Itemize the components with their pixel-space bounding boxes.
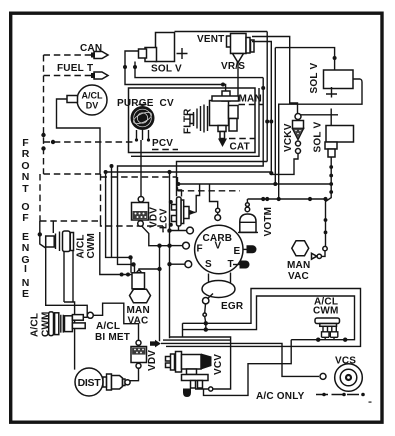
carburetor CARB bbox=[195, 225, 243, 273]
wire band a S to VCV bbox=[170, 337, 231, 389]
filter FLTR stack bbox=[190, 105, 208, 133]
wire v6 drop to CARB top bbox=[274, 48, 276, 184]
svg-text:T: T bbox=[22, 183, 29, 195]
svg-text:CWM: CWM bbox=[86, 233, 97, 259]
wire CWM1 feed from dashed box bbox=[52, 221, 54, 233]
svg-text:PCV: PCV bbox=[152, 138, 173, 149]
wire S-F column bbox=[169, 172, 171, 338]
svg-text:A/CL: A/CL bbox=[76, 234, 87, 258]
wire v5 drop bbox=[106, 171, 272, 173]
motor A/CL CWM 3 bbox=[313, 297, 347, 342]
wire MAN VAC feeds bbox=[106, 172, 131, 273]
wire MAN VAC left feed bbox=[100, 232, 132, 275]
wire dashed mid right bbox=[178, 177, 241, 191]
svg-text:S: S bbox=[205, 259, 212, 270]
wire VR/S down bbox=[237, 63, 239, 97]
wire FUEL dashed with arrow bbox=[44, 75, 94, 77]
label FRONT OF ENGINE bbox=[21, 137, 29, 300]
wire dashed to purge ports bbox=[44, 141, 135, 143]
EGR valve bbox=[202, 273, 244, 330]
wire band a2 bbox=[163, 339, 231, 341]
hexagon MAN VAC bottom bbox=[127, 270, 151, 327]
wire v1 from SOL V1 top bbox=[266, 32, 268, 162]
svg-text:E: E bbox=[22, 288, 29, 300]
wire to BI MET port bbox=[83, 316, 87, 318]
svg-text:A/C ONLY: A/C ONLY bbox=[256, 391, 305, 402]
port E filled bbox=[247, 245, 257, 253]
plug + bbox=[177, 48, 188, 59]
svg-text:VAC: VAC bbox=[128, 316, 149, 327]
wire band c bbox=[204, 340, 292, 396]
node dot bbox=[41, 146, 45, 150]
enclosure box CAT section bbox=[129, 88, 256, 153]
port CARB top bbox=[216, 208, 220, 212]
svg-text:LCV: LCV bbox=[159, 208, 170, 229]
svg-text:E: E bbox=[234, 246, 241, 257]
port T filled bbox=[240, 261, 250, 269]
node dot bbox=[51, 140, 55, 144]
svg-text:N: N bbox=[22, 171, 30, 183]
distributor DIST bbox=[75, 368, 130, 396]
valve VDV 1 bbox=[132, 197, 170, 230]
purge ports bbox=[137, 130, 149, 140]
svg-text:FLTR: FLTR bbox=[183, 108, 194, 134]
node dot bbox=[41, 133, 45, 137]
svg-text:VENT: VENT bbox=[197, 34, 224, 45]
valve VCV bbox=[166, 352, 225, 398]
wire from A/CL DV bbox=[57, 99, 101, 174]
svg-text:SOL V: SOL V bbox=[151, 64, 182, 75]
svg-text:CWM: CWM bbox=[313, 306, 339, 317]
wire VR/S right lower bbox=[252, 42, 271, 173]
valve VR/S bbox=[221, 34, 254, 73]
check valve VCKV bbox=[283, 114, 304, 154]
svg-text:VAC: VAC bbox=[288, 271, 309, 282]
valve PURGE CV ball bbox=[131, 106, 155, 130]
wire BI MET to MAN VAC bottom bbox=[93, 303, 138, 340]
wire v2 from SOL V1 stem bbox=[118, 78, 264, 273]
wire long horizontal mid bbox=[248, 198, 326, 200]
svg-text:DV: DV bbox=[86, 101, 99, 111]
wire second enclosure line bbox=[131, 88, 259, 156]
dashed mid left bbox=[101, 176, 177, 178]
svg-text:F: F bbox=[197, 244, 203, 255]
svg-text:R: R bbox=[22, 148, 30, 160]
wire VCKV down bbox=[271, 154, 298, 175]
svg-text:A/CL: A/CL bbox=[82, 91, 103, 101]
wire VR/S right upper bbox=[252, 37, 298, 114]
svg-text:N: N bbox=[22, 242, 30, 254]
wire CAN dashed with arrow bbox=[44, 54, 94, 56]
wire LCV arm riser bbox=[196, 184, 199, 212]
wire LCV bottom stem bbox=[178, 226, 180, 231]
port CARB upper left + F bbox=[187, 227, 194, 234]
wire dashed vertical left bbox=[43, 55, 45, 174]
svg-text:VDV: VDV bbox=[147, 350, 158, 371]
wire CWM1 down to DIST bbox=[46, 247, 87, 317]
svg-text:VR/S: VR/S bbox=[221, 61, 245, 72]
wire band b arrow to VCS bbox=[150, 340, 161, 348]
svg-text:A/CL: A/CL bbox=[96, 321, 120, 332]
solenoid SOL V 1 bbox=[156, 33, 175, 62]
valve VDV 2 bbox=[131, 340, 158, 371]
svg-text:V: V bbox=[215, 241, 222, 252]
valve LCV bbox=[169, 197, 196, 227]
svg-text:I: I bbox=[24, 263, 27, 275]
svg-text:VOTM: VOTM bbox=[263, 207, 274, 237]
motor A/CL CWM 2 bbox=[30, 311, 86, 337]
valve VCS bbox=[335, 356, 363, 392]
svg-text:T: T bbox=[228, 259, 234, 270]
wire EGR loop inner bbox=[206, 296, 355, 340]
svg-text:MAN: MAN bbox=[239, 94, 262, 105]
wire SOL V 1 stem bbox=[135, 62, 263, 78]
svg-text:F: F bbox=[22, 212, 29, 224]
speck artifact bbox=[369, 401, 372, 403]
wire SOL V 1 left loop bbox=[125, 51, 226, 96]
svg-text:EGR: EGR bbox=[221, 301, 244, 312]
valve VOTM bbox=[238, 199, 274, 237]
svg-text:MAN: MAN bbox=[127, 305, 150, 316]
svg-text:SOL V: SOL V bbox=[313, 122, 324, 153]
svg-text:VCV: VCV bbox=[213, 354, 224, 375]
valve CAT assembly bbox=[210, 91, 239, 139]
port S bbox=[185, 261, 192, 268]
svg-text:DIST: DIST bbox=[78, 377, 102, 389]
svg-text:BI MET: BI MET bbox=[95, 332, 130, 343]
svg-text:MAN: MAN bbox=[287, 260, 310, 271]
svg-text:A/CL: A/CL bbox=[30, 313, 41, 337]
wire dashed box bbox=[40, 174, 168, 232]
wire dotted SOL V3 to MAN VAC bbox=[326, 157, 332, 246]
solenoid SOL V 3 bbox=[301, 109, 354, 158]
wire VDV2 to DIST bbox=[130, 368, 139, 380]
svg-text:SOL V: SOL V bbox=[309, 63, 320, 94]
wire SOL V 1 top bbox=[175, 31, 268, 33]
wire purge to VDV bbox=[140, 140, 142, 197]
svg-text:CAT: CAT bbox=[230, 142, 250, 153]
svg-text:T: T bbox=[87, 63, 93, 74]
motor A/CL CWM 1 bbox=[38, 221, 97, 259]
solenoid SOL V 2 bbox=[275, 48, 362, 199]
wire EGR loop outer bbox=[166, 289, 361, 347]
valve A/CL DV bbox=[77, 85, 107, 115]
hexagon MAN VAC right bbox=[287, 241, 321, 282]
wire VDV1 bottom to MAN VAC bbox=[142, 226, 170, 246]
svg-text:FUEL: FUEL bbox=[57, 63, 84, 74]
wire MAN VAC right feed to band bbox=[139, 246, 160, 342]
